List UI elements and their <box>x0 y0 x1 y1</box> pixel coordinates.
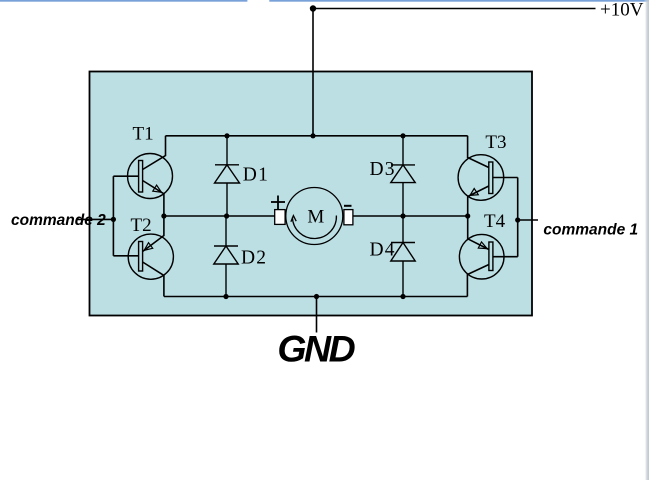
junction: T3/T4 emitters <box>465 213 470 218</box>
svg-text:T4: T4 <box>484 211 506 232</box>
wire: left motor line <box>164 215 275 217</box>
junction: bottom rail / GND stub <box>314 294 319 299</box>
diode D3 <box>391 136 415 216</box>
motor plus terminal mark <box>271 196 285 210</box>
svg-text:T1: T1 <box>133 124 154 145</box>
wire: +10V supply horizontal <box>313 8 596 10</box>
H-bridge block background <box>90 72 533 316</box>
wire: T2 base <box>113 255 138 257</box>
svg-text:M: M <box>307 206 324 227</box>
wire: T3 base <box>493 177 518 179</box>
junction: top rail / D3 <box>400 133 405 138</box>
junction: top rail / D1 <box>224 133 229 138</box>
junction: supply corner <box>310 5 316 11</box>
svg-text:commande 1: commande 1 <box>543 222 638 239</box>
svg-text:D4: D4 <box>370 240 396 261</box>
wire: top rail (collector bus) <box>166 135 468 137</box>
junction: commande 1 <box>515 217 520 222</box>
junction: T1/T2 emitters <box>161 213 166 218</box>
svg-text:T3: T3 <box>485 132 506 153</box>
svg-text:+10V: +10V <box>600 0 644 21</box>
wire: right motor line <box>353 215 468 217</box>
transistor T4 (PNP, bottom-right) <box>459 216 504 297</box>
wire: right base bus <box>517 178 519 257</box>
junction: D1/D2 <box>224 213 229 218</box>
transistor T1 (NPN, top-left) <box>128 136 173 216</box>
transistor T2 (PNP, bottom-left) <box>128 216 173 297</box>
junction: D3/D4 <box>400 213 405 218</box>
junction: bottom rail / D4 <box>400 294 405 299</box>
wire: commande 2 lead <box>76 218 113 220</box>
diode D1 <box>215 136 240 216</box>
wire: GND stub <box>316 297 318 333</box>
motor rotation arrow <box>291 216 337 239</box>
transistor T3 (NPN, top-right) <box>458 136 504 216</box>
svg-text:D3: D3 <box>370 159 396 180</box>
motor minus terminal mark <box>344 205 352 207</box>
wire: left base bus <box>112 176 114 256</box>
wire: bottom rail (GND bus) <box>164 296 467 298</box>
svg-text:commande 2: commande 2 <box>11 212 106 229</box>
svg-text:GND: GND <box>277 328 355 370</box>
motor M <box>275 188 353 245</box>
wire: commande 1 lead <box>518 219 538 221</box>
wire: T4 base <box>493 256 518 258</box>
junction: top rail / supply <box>310 133 315 138</box>
junction: commande 2 <box>111 217 116 222</box>
junction: bottom rail / D2 <box>223 294 228 299</box>
svg-text:D2: D2 <box>241 248 267 269</box>
diode D4 <box>391 216 415 297</box>
diode D2 <box>214 216 238 297</box>
svg-text:T2: T2 <box>131 215 152 236</box>
wire: +10V supply vertical <box>312 9 314 136</box>
svg-text:D1: D1 <box>243 165 269 186</box>
wire: T1 base <box>113 175 138 177</box>
